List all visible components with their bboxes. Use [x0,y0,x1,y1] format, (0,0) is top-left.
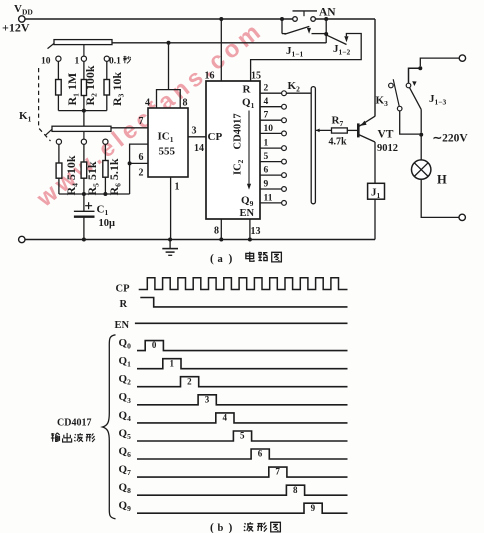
svg-text:14: 14 [194,143,204,154]
svg-text:R3 10k: R3 10k [110,72,126,106]
svg-text:2: 2 [264,84,269,94]
svg-text:8: 8 [293,485,298,495]
svg-text:b: b [218,523,224,533]
svg-text:7: 7 [275,467,280,477]
svg-text:8: 8 [214,226,219,237]
svg-text:1: 1 [75,57,80,67]
svg-text:11: 11 [264,193,273,203]
svg-text:10: 10 [41,57,51,67]
svg-text:1: 1 [175,182,180,193]
svg-text:4: 4 [145,98,150,109]
svg-text:555: 555 [159,146,176,158]
svg-text:CD4017: CD4017 [233,113,244,149]
svg-text:7: 7 [139,116,144,127]
svg-text:CP: CP [116,284,131,295]
svg-text:EN: EN [240,208,255,219]
svg-text:R1 1M: R1 1M [65,73,81,106]
svg-text:3: 3 [192,126,197,137]
svg-text:0.1: 0.1 [109,57,121,67]
svg-text:): ) [229,253,233,265]
svg-text:∼220V: ∼220V [433,133,469,145]
svg-text:6: 6 [139,152,144,163]
svg-text:4.7k: 4.7k [329,137,348,148]
svg-text:(: ( [210,522,214,533]
svg-text:13: 13 [251,226,261,237]
svg-text:9: 9 [264,179,269,189]
svg-text:9012: 9012 [377,143,398,154]
svg-text:15: 15 [251,71,261,82]
svg-text:+12V: +12V [2,21,30,35]
svg-text:10μ: 10μ [99,218,116,229]
svg-text:R6 5.1k: R6 5.1k [107,158,123,195]
svg-text:VT: VT [378,129,394,141]
svg-text:a: a [218,254,224,265]
svg-text:CD4017: CD4017 [57,418,91,429]
svg-text:1: 1 [170,358,175,368]
svg-text:3: 3 [205,394,210,404]
svg-text:9: 9 [311,503,316,513]
svg-text:5: 5 [264,152,269,162]
svg-text:CP: CP [208,131,223,143]
svg-text:EN: EN [115,320,130,331]
svg-text:6: 6 [264,166,269,176]
svg-text:1: 1 [264,139,269,149]
svg-text:R: R [243,84,252,96]
svg-text:AN: AN [319,7,336,19]
svg-text:8: 8 [183,98,188,109]
svg-text:R: R [120,299,128,310]
svg-text:16: 16 [205,71,215,82]
svg-text:6: 6 [258,449,263,459]
svg-text:R5 51k: R5 51k [85,161,101,195]
svg-text:5: 5 [240,431,245,441]
svg-text:7: 7 [264,111,269,121]
svg-text:0: 0 [152,340,157,350]
svg-text:R2 100k: R2 100k [83,65,99,105]
svg-text:2: 2 [139,168,144,179]
svg-text:2: 2 [187,376,192,386]
svg-text:): ) [229,522,233,533]
svg-text:4: 4 [222,413,227,423]
svg-text:4: 4 [264,97,269,107]
svg-text:10: 10 [264,124,274,134]
svg-text:(: ( [210,253,214,265]
svg-text:R4 510k: R4 510k [64,155,80,195]
svg-text:H: H [437,173,447,187]
